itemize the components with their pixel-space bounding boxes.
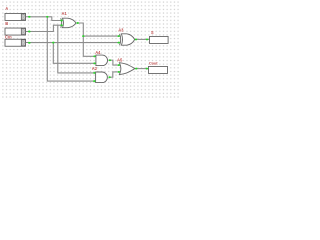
wire A1 junction to A3 upper input	[83, 35, 120, 37]
junction A1 out	[82, 35, 84, 37]
A3 input 1	[118, 35, 120, 37]
A5 output	[135, 68, 137, 70]
input pin A	[5, 13, 29, 20]
svg-text:A4: A4	[95, 50, 101, 55]
output pin S	[150, 36, 169, 43]
and gate A2	[96, 72, 108, 83]
input pin Cin	[5, 39, 29, 46]
svg-text:A3: A3	[118, 28, 124, 33]
or gate A5	[119, 63, 134, 75]
and gate A4	[96, 55, 108, 66]
A4 input 1	[93, 55, 95, 57]
wire A horizontal from pin A	[29, 17, 63, 21]
node B pin	[28, 31, 31, 33]
wire A2 output to A5 lower input	[109, 72, 121, 77]
wire B horizontal from pin B	[29, 25, 63, 31]
svg-text:A: A	[5, 6, 8, 11]
node S pin	[146, 38, 148, 40]
svg-text:Cout: Cout	[149, 61, 158, 66]
wire A5 output to pin Cout	[135, 68, 149, 70]
A1 output	[77, 22, 79, 24]
xor gate A1	[61, 18, 76, 28]
A5 input 1	[118, 64, 120, 66]
A4 input 2	[93, 62, 95, 64]
node Cin pin	[28, 42, 31, 44]
svg-text:S: S	[151, 30, 154, 35]
green connection dots	[28, 16, 148, 82]
A3 input 2	[118, 42, 120, 44]
A3 output	[135, 38, 137, 40]
node Cout pin	[146, 68, 148, 70]
svg-text:A1: A1	[62, 11, 68, 16]
wire A3 output to pin S	[135, 38, 150, 40]
junction A	[46, 16, 48, 18]
svg-text:Cin: Cin	[5, 35, 12, 40]
A5 input 2	[118, 71, 120, 73]
svg-text:B: B	[5, 21, 8, 26]
A2 input 1	[93, 72, 95, 74]
wire A1 output down to A4 upper	[77, 23, 97, 56]
wire A branch vertical down to A2 lower	[47, 17, 96, 81]
output pin Cout	[149, 66, 168, 73]
wire A4 output to A5 upper input	[109, 60, 121, 65]
wire B branch vertical down to A2 upper	[58, 25, 96, 73]
A2 output	[108, 76, 110, 78]
node A pin	[28, 16, 31, 18]
A4 output	[109, 59, 111, 61]
wire Cin to A3 lower input	[29, 42, 120, 44]
A2 input 2	[93, 80, 95, 82]
svg-text:A5: A5	[117, 57, 123, 62]
input pin B	[5, 28, 29, 35]
xor gate A3	[120, 34, 135, 45]
A1 input 1	[60, 20, 62, 22]
wire Cin branch down to A4 lower	[53, 43, 96, 64]
svg-text:A2: A2	[92, 66, 98, 71]
A1 input 2	[60, 24, 62, 26]
junction Cin	[52, 42, 54, 44]
